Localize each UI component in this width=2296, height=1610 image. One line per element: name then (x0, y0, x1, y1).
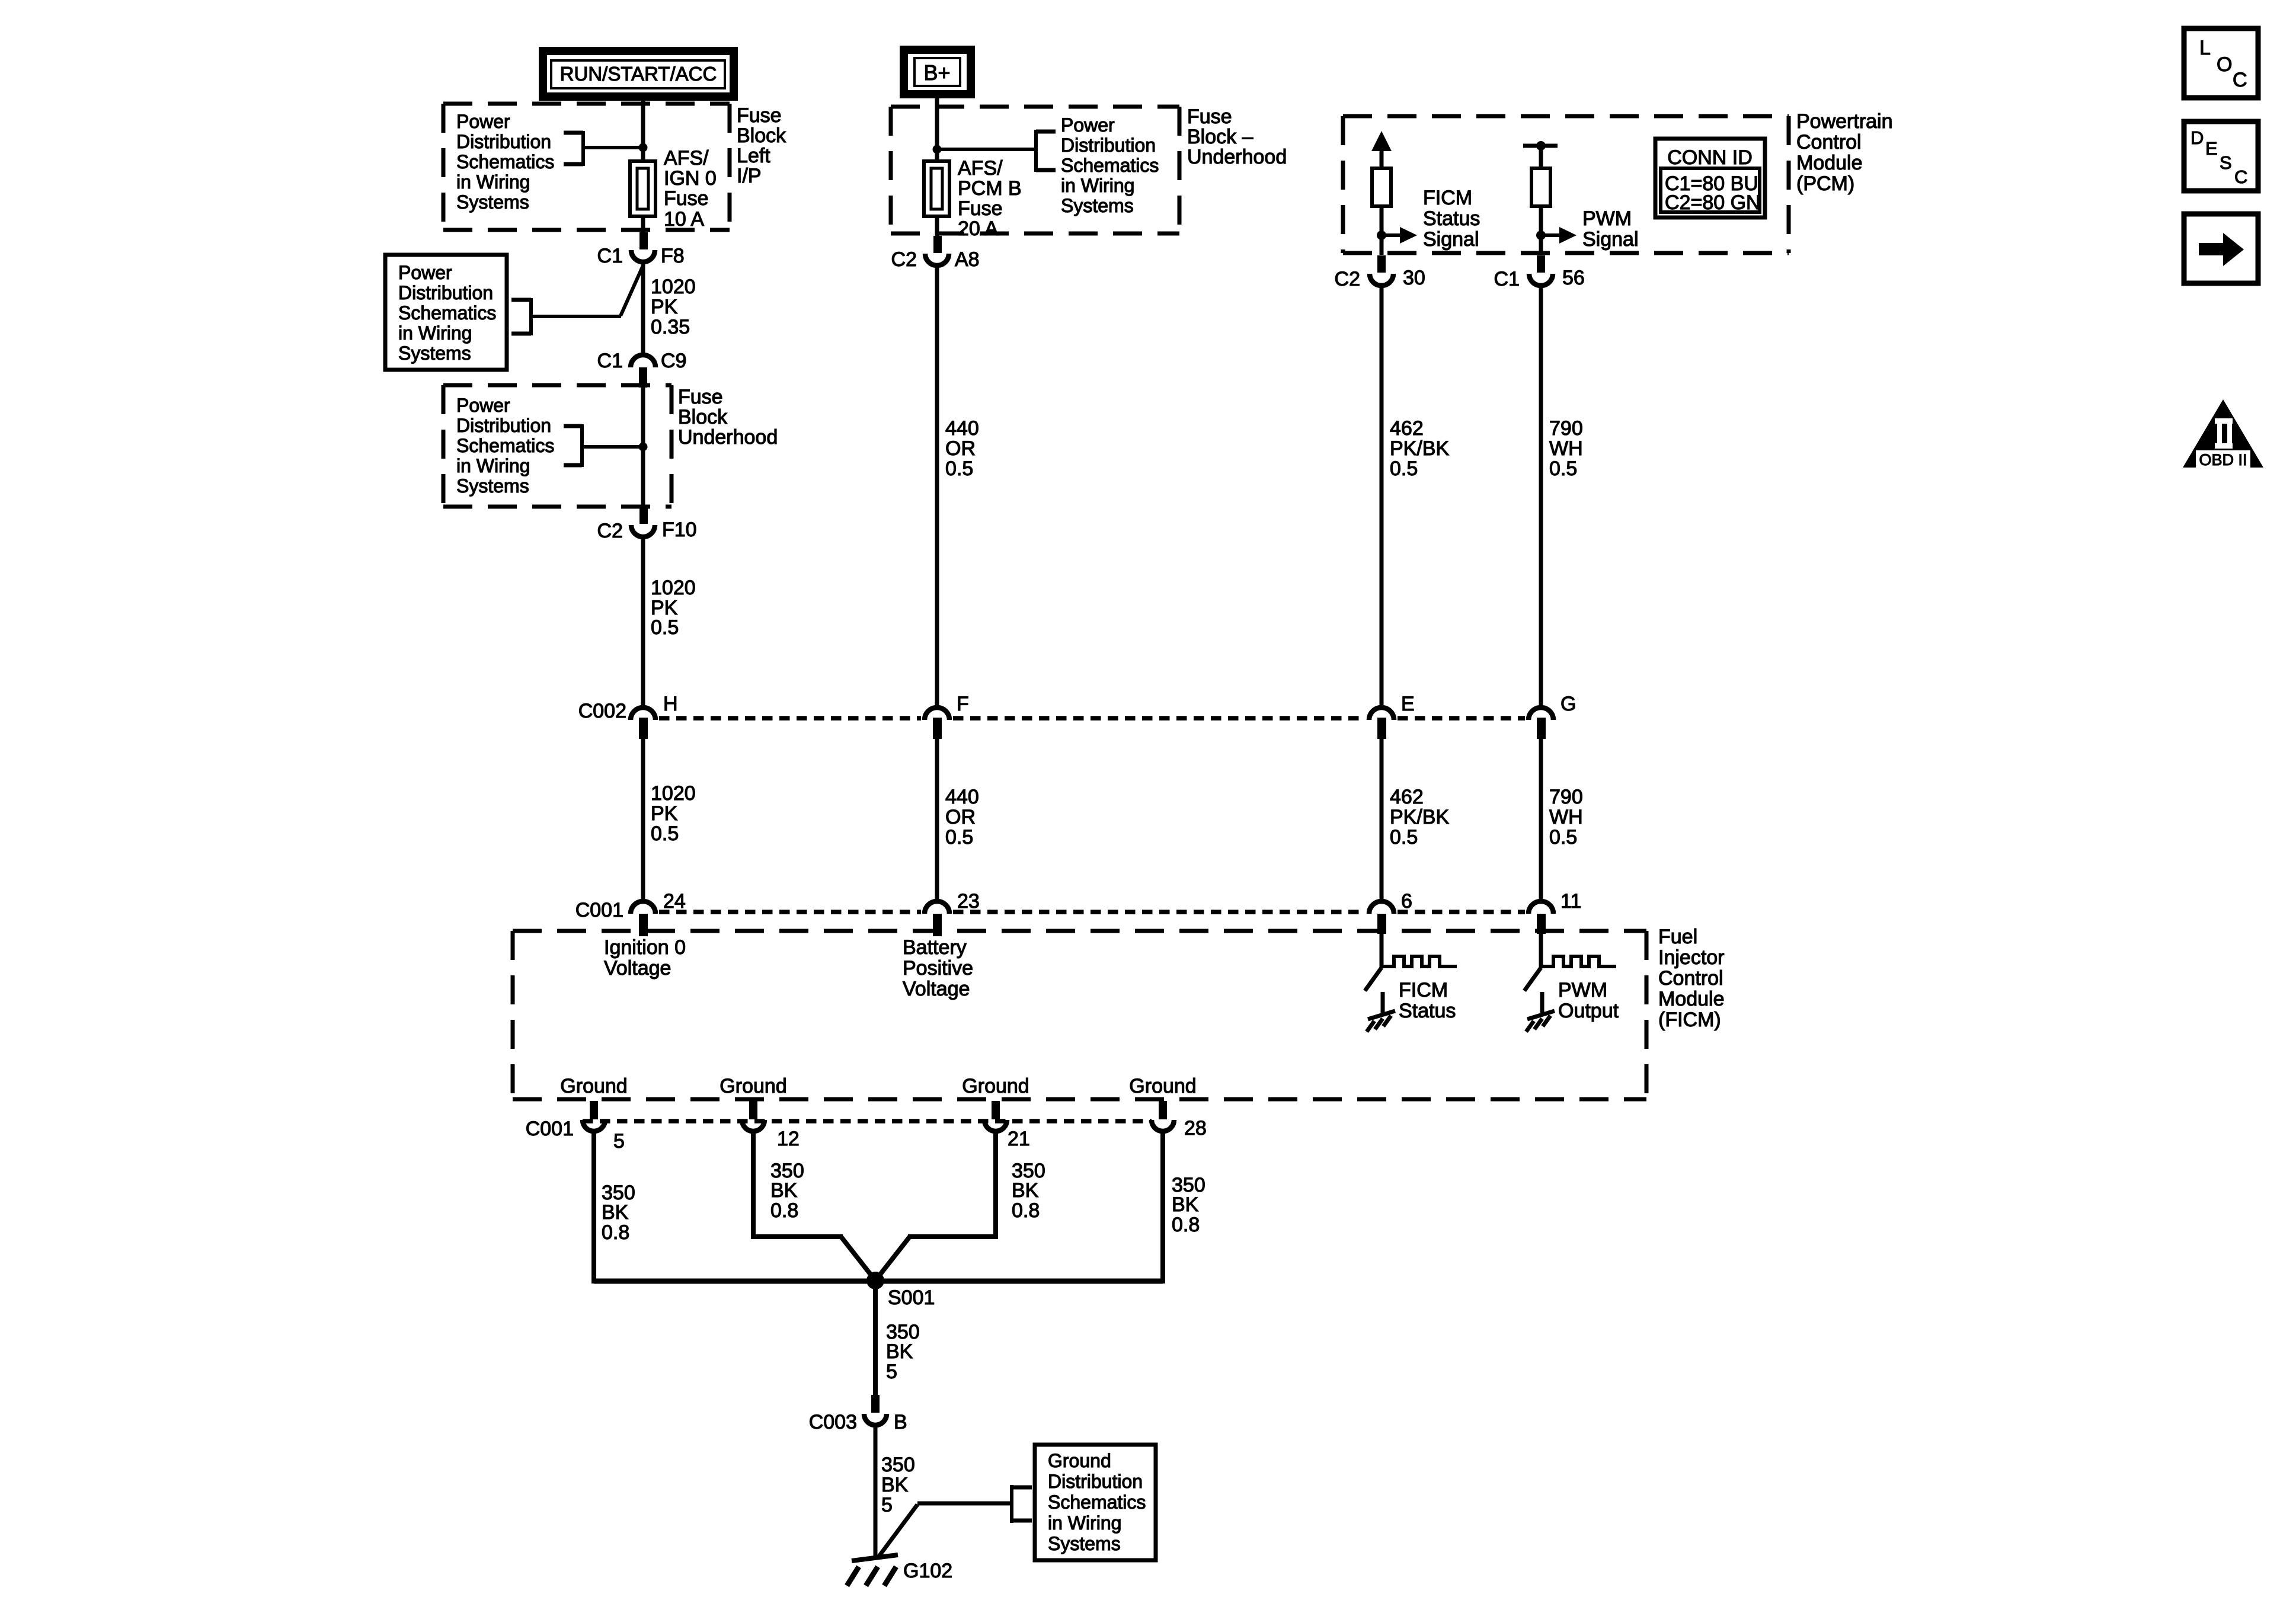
label Powertrain Control Module (PCM) (1796, 110, 1893, 195)
svg-text:Module: Module (1658, 988, 1725, 1010)
svg-text:E: E (2205, 138, 2218, 159)
svg-text:C9: C9 (661, 350, 686, 372)
connector C1 pin F8 (597, 232, 685, 267)
svg-text:6: 6 (1401, 890, 1412, 913)
svg-text:B: B (894, 1411, 907, 1433)
svg-text:C2=80 GN: C2=80 GN (1665, 191, 1761, 214)
wire E to C001 6, 462 PK/BK 0.5 (1380, 739, 1384, 901)
connector C002 pin G (1528, 693, 1576, 739)
svg-text:Battery: Battery (903, 936, 967, 959)
svg-text:L: L (2199, 37, 2211, 59)
FICM status input: wire, waveform, switch, ground (1365, 933, 1457, 1032)
svg-text:11: 11 (1560, 890, 1581, 913)
label Fuse Block Underhood (678, 386, 778, 449)
svg-text:Underhood: Underhood (1187, 146, 1287, 168)
svg-text:BK: BK (1172, 1193, 1199, 1216)
svg-text:BK: BK (770, 1179, 798, 1202)
connector C001 pin 23 (925, 890, 980, 936)
svg-text:0.8: 0.8 (1012, 1199, 1040, 1222)
svg-text:790: 790 (1549, 417, 1583, 440)
connector C1 pin 56 (1494, 255, 1585, 290)
svg-text:24: 24 (663, 890, 686, 913)
svg-text:G: G (1560, 693, 1576, 715)
signal arrow PWM Signal (1541, 207, 1639, 251)
svg-text:PK/BK: PK/BK (1390, 806, 1449, 828)
svg-text:WH: WH (1549, 806, 1583, 828)
svg-text:790: 790 (1549, 786, 1583, 808)
power label B+ (904, 50, 971, 94)
svg-text:462: 462 (1390, 786, 1424, 808)
svg-text:C1: C1 (597, 245, 623, 267)
svg-text:OBD II: OBD II (2199, 451, 2247, 469)
wire F8 to C9 with branch (621, 264, 644, 316)
internal T bar (PWM source) (1523, 141, 1558, 169)
svg-text:C: C (2233, 69, 2247, 91)
svg-text:Distribution: Distribution (456, 131, 551, 152)
svg-text:Left: Left (737, 145, 770, 167)
svg-text:1020: 1020 (651, 782, 696, 805)
svg-text:BK: BK (886, 1340, 913, 1363)
node junction FICM status signal (1377, 231, 1386, 240)
label Ignition 0 Voltage (604, 936, 686, 980)
svg-text:F8: F8 (661, 245, 685, 267)
svg-text:Schematics: Schematics (1061, 155, 1159, 176)
svg-text:0.5: 0.5 (1390, 826, 1418, 849)
svg-text:Fuse: Fuse (664, 187, 709, 210)
svg-text:Systems: Systems (398, 343, 471, 364)
wire H to C001 24, 1020 PK 0.5 (641, 739, 645, 901)
connector C2 pin 30 (1335, 255, 1425, 290)
svg-text:C001: C001 (526, 1118, 574, 1140)
svg-text:Distribution: Distribution (398, 282, 493, 303)
splice S001 (866, 1272, 935, 1309)
svg-text:H: H (663, 693, 678, 715)
svg-text:Distribution: Distribution (1048, 1471, 1143, 1492)
svg-text:5: 5 (886, 1361, 897, 1383)
signal arrow FICM Status Signal (1382, 187, 1480, 251)
fuse block left I/P dashed box (443, 104, 730, 230)
svg-text:PK: PK (651, 296, 678, 318)
wire A8 to C002 F, 440 OR 0.5 (935, 267, 939, 709)
icon OBD II triangle (2183, 399, 2263, 469)
svg-text:0.35: 0.35 (651, 316, 690, 338)
node junction on B+ feed (933, 145, 942, 154)
svg-text:440: 440 (945, 786, 979, 808)
icon forward arrow box (2184, 214, 2258, 283)
bracket to solid power distribution box (511, 298, 531, 335)
wire G to C001 11, 790 WH 0.5 (1539, 739, 1543, 901)
svg-text:Distribution: Distribution (456, 415, 551, 436)
svg-text:0.5: 0.5 (1549, 826, 1577, 849)
svg-text:PK/BK: PK/BK (1390, 437, 1449, 460)
powertrain control module PCM dashed box (1343, 116, 1789, 253)
connector C001 pin 6 (1369, 890, 1412, 934)
svg-text:5: 5 (881, 1494, 893, 1516)
svg-text:OR: OR (945, 437, 976, 460)
svg-text:BK: BK (602, 1201, 629, 1224)
svg-text:Schematics: Schematics (398, 302, 496, 324)
svg-text:C2: C2 (597, 520, 623, 542)
svg-text:C003: C003 (809, 1411, 857, 1433)
svg-text:Block: Block (737, 124, 786, 147)
svg-text:Control: Control (1658, 967, 1723, 990)
fuel injector control module FICM dashed box (513, 931, 1646, 1099)
svg-text:RUN/START/ACC: RUN/START/ACC (560, 63, 717, 85)
internal arrow up (FICM status source) (1371, 131, 1392, 169)
svg-text:Module: Module (1796, 152, 1863, 174)
svg-text:FICM: FICM (1399, 979, 1448, 1001)
svg-text:21: 21 (1008, 1128, 1030, 1150)
resistor in PCM (PWM pull-up) (1531, 168, 1550, 206)
svg-text:Fuel: Fuel (1658, 926, 1697, 948)
svg-text:440: 440 (945, 417, 979, 440)
svg-text:Fuse: Fuse (958, 197, 1003, 220)
svg-text:28: 28 (1184, 1117, 1207, 1140)
svg-text:C002: C002 (578, 700, 626, 722)
svg-text:C2: C2 (1335, 268, 1360, 290)
wire fuse to connector C1 F8 (641, 216, 645, 236)
svg-text:5: 5 (613, 1130, 625, 1153)
wire F10 to C002 H, 1020 PK 0.5 (641, 538, 645, 709)
label Fuel Injector Control Module (FICM) (1658, 926, 1725, 1031)
svg-text:in Wiring: in Wiring (1048, 1512, 1121, 1534)
CONN ID table (1655, 139, 1765, 217)
svg-text:in Wiring: in Wiring (398, 322, 472, 344)
node junction in fuse block underhood (639, 443, 648, 452)
label Fuse Block Left I/P (737, 104, 786, 187)
bracket in fuse block underhood (564, 424, 643, 467)
svg-text:Signal: Signal (1582, 228, 1639, 251)
connector C001 ground dashed line (583, 1119, 1152, 1124)
connector C002 pin H (578, 693, 678, 739)
connector C002 dashed harness line (659, 716, 1525, 721)
svg-text:1020: 1020 (651, 577, 696, 599)
svg-text:S: S (2220, 152, 2232, 173)
svg-text:Positive: Positive (903, 957, 973, 980)
svg-text:BK: BK (1012, 1179, 1039, 1202)
svg-text:F: F (957, 693, 969, 715)
svg-text:PK: PK (651, 802, 678, 825)
svg-text:10 A: 10 A (664, 208, 704, 231)
fuse AFS/IGN 0 Fuse 10 A (630, 147, 717, 231)
PWM output: wire, waveform, switch, ground (1524, 933, 1619, 1032)
svg-text:A8: A8 (955, 248, 980, 271)
svg-text:Power: Power (398, 262, 452, 283)
wire B+ to fuse AFS/PCM B (935, 94, 939, 161)
svg-text:30: 30 (1403, 267, 1425, 289)
svg-text:in Wiring: in Wiring (456, 455, 530, 476)
label Fuse Block - Underhood (1187, 105, 1287, 168)
svg-text:23: 23 (957, 890, 980, 913)
svg-text:Distribution: Distribution (1061, 135, 1156, 156)
solid box power distribution schematics (385, 255, 507, 370)
bracket to power distribution text in fuse block - underhood (937, 130, 1056, 172)
svg-text:Injector: Injector (1658, 946, 1725, 969)
svg-text:(PCM): (PCM) (1796, 172, 1854, 195)
svg-text:0.8: 0.8 (1172, 1214, 1200, 1236)
svg-text:Block –: Block – (1187, 126, 1253, 148)
node junction PWM signal (1536, 231, 1546, 240)
node junction on RUN feed (639, 143, 648, 152)
svg-text:PCM B: PCM B (958, 177, 1022, 200)
svg-text:AFS/: AFS/ (958, 157, 1003, 180)
svg-text:Power: Power (1061, 114, 1115, 136)
fuse AFS/PCM B Fuse 20 A (924, 157, 1022, 240)
svg-text:Ground: Ground (720, 1075, 786, 1097)
connector C003 pin B (809, 1395, 907, 1433)
fuse block underhood dashed box (443, 385, 671, 507)
connector C2 pin F10 (597, 507, 697, 542)
svg-text:Signal: Signal (1423, 228, 1479, 251)
svg-text:OR: OR (945, 806, 976, 828)
connector C001 pin 21 (984, 1101, 1030, 1150)
wire fuse to connector C2 A8 (935, 216, 939, 236)
svg-text:C: C (2234, 167, 2247, 187)
svg-text:Ground: Ground (1129, 1075, 1196, 1097)
ground bus wire (594, 1279, 1163, 1284)
svg-text:Fuse: Fuse (737, 104, 782, 127)
connector C001 pin 24 (575, 890, 686, 936)
ground G102 (847, 1555, 952, 1586)
svg-text:Ground: Ground (560, 1075, 627, 1097)
ground wire pin 21, 350 BK 0.8 (875, 1132, 1045, 1281)
svg-text:0.5: 0.5 (1549, 457, 1577, 480)
svg-text:Underhood: Underhood (678, 426, 778, 449)
wire label 1020 PK 0.35 (651, 276, 696, 338)
svg-text:0.5: 0.5 (651, 822, 679, 845)
branch wire to ground distribution bracket (878, 1503, 1010, 1558)
svg-text:C1: C1 (597, 350, 623, 372)
svg-text:Fuse: Fuse (1187, 105, 1232, 128)
bracket to power distribution text in fuse block left (564, 131, 643, 166)
ground wire pin 12, 350 BK 0.8 (751, 1132, 875, 1281)
svg-text:C2: C2 (891, 248, 917, 271)
ground distribution schematics box (1035, 1445, 1156, 1560)
svg-text:B+: B+ (923, 60, 950, 85)
svg-text:CONN ID: CONN ID (1667, 146, 1753, 169)
wire 56 to C002 G, 790 WH 0.5 (1539, 287, 1543, 709)
svg-text:C1: C1 (1494, 268, 1520, 290)
svg-text:0.8: 0.8 (770, 1199, 798, 1222)
svg-text:Voltage: Voltage (604, 957, 671, 980)
icon DESC box (2184, 121, 2258, 191)
connector C001 dashed harness line (659, 910, 1525, 914)
resistor in PCM (FICM status pull-up) (1372, 168, 1391, 206)
fuse block - underhood dashed box (891, 107, 1179, 233)
connector C2 pin A8 (891, 236, 980, 271)
svg-text:Schematics: Schematics (456, 151, 554, 172)
wire RUN/START/ACC to fuse AFS/IGN 0 (641, 97, 645, 161)
svg-text:Ground: Ground (962, 1075, 1029, 1097)
svg-text:PWM: PWM (1582, 207, 1632, 230)
wire 30 to C002 E, 462 PK/BK 0.5 (1380, 287, 1384, 709)
svg-text:Output: Output (1558, 1000, 1619, 1022)
wire S001 to C003, 350 BK 5 (875, 1281, 920, 1396)
svg-text:S001: S001 (888, 1286, 935, 1309)
connector C001 pin 28 (1152, 1101, 1207, 1140)
svg-text:0.8: 0.8 (602, 1221, 629, 1244)
svg-text:in Wiring: in Wiring (1061, 175, 1134, 196)
svg-text:0.5: 0.5 (945, 457, 973, 480)
svg-text:Powertrain: Powertrain (1796, 110, 1893, 133)
connector C002 pin F (925, 693, 969, 739)
svg-text:(FICM): (FICM) (1658, 1009, 1721, 1031)
wire resistor to pin 56 (1539, 206, 1543, 255)
connector C002 pin E (1369, 693, 1415, 739)
svg-text:Schematics: Schematics (456, 435, 554, 456)
svg-text:Ignition 0: Ignition 0 (604, 936, 686, 959)
svg-text:D: D (2191, 127, 2204, 148)
svg-text:0.5: 0.5 (1390, 457, 1418, 480)
icon LOC box (2184, 28, 2258, 98)
bracket to ground distribution box (1012, 1485, 1032, 1523)
svg-text:Schematics: Schematics (1048, 1491, 1146, 1513)
wire C003 to G102, 350 BK 5 (875, 1426, 915, 1559)
svg-text:1020: 1020 (651, 276, 696, 298)
svg-text:AFS/: AFS/ (664, 147, 709, 169)
svg-text:Voltage: Voltage (903, 978, 970, 1000)
wire resistor to pin 30 (1380, 206, 1384, 255)
svg-text:Ground: Ground (1048, 1450, 1111, 1471)
connector C001 pin 11 (1528, 890, 1581, 934)
svg-text:C001: C001 (575, 899, 623, 921)
ground wire pin 28, 350 BK 0.8 (1160, 1132, 1165, 1283)
svg-text:Block: Block (678, 406, 728, 428)
svg-text:462: 462 (1390, 417, 1424, 440)
connector C001 pin 12 (742, 1101, 800, 1150)
svg-text:Power: Power (456, 395, 510, 416)
svg-text:0.5: 0.5 (651, 616, 679, 639)
label Battery Positive Voltage (903, 936, 973, 1000)
svg-text:Fuse: Fuse (678, 386, 723, 408)
svg-text:FICM: FICM (1423, 187, 1472, 209)
svg-text:Power: Power (456, 111, 510, 132)
wire through fuse block underhood (641, 387, 645, 507)
ground pin labels (560, 1075, 1196, 1097)
wire F to C001 23, 440 OR 0.5 (935, 739, 939, 901)
svg-text:WH: WH (1549, 437, 1583, 460)
svg-text:Control: Control (1796, 131, 1862, 153)
svg-text:20 A: 20 A (958, 217, 998, 240)
svg-text:PWM: PWM (1558, 979, 1607, 1001)
svg-text:I/P: I/P (737, 165, 762, 187)
svg-text:56: 56 (1562, 267, 1585, 289)
svg-text:E: E (1401, 693, 1415, 715)
svg-text:IGN 0: IGN 0 (664, 167, 717, 190)
svg-text:F10: F10 (662, 518, 697, 541)
connector C1 pin C9 (597, 350, 687, 388)
svg-text:0.5: 0.5 (945, 826, 973, 849)
svg-text:Systems: Systems (1061, 195, 1134, 216)
power label RUN/START/ACC (543, 51, 734, 97)
svg-text:in Wiring: in Wiring (456, 171, 530, 193)
svg-text:350: 350 (881, 1454, 915, 1476)
svg-text:Status: Status (1423, 207, 1480, 230)
svg-text:O: O (2217, 53, 2232, 76)
connector C001 pin 5 (583, 1101, 625, 1153)
svg-text:Systems: Systems (456, 475, 529, 497)
svg-text:G102: G102 (903, 1560, 952, 1582)
svg-text:Systems: Systems (456, 191, 529, 213)
svg-text:12: 12 (777, 1128, 800, 1150)
svg-text:Status: Status (1399, 1000, 1456, 1022)
svg-text:Systems: Systems (1048, 1533, 1121, 1554)
ground wire pin 5, 350 BK 0.8 (591, 1132, 596, 1283)
svg-text:BK: BK (881, 1474, 909, 1496)
